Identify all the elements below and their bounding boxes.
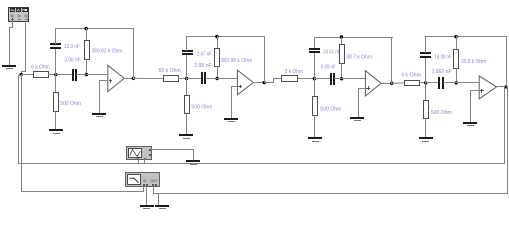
capacitor C2 12.3nF feedback (50, 43, 80, 50)
function generator XFG1 (9, 8, 29, 22)
wire C1 to op-amp U1 minus input (76, 74, 112, 76)
wire U2 plus input to ground (231, 86, 238, 118)
wire input rail to R1 (21, 74, 33, 76)
wire U3 output (381, 83, 392, 85)
wire C3 to op-amp U2 minus input (205, 78, 242, 80)
resistor R10 4k (401, 73, 421, 86)
resistor R6 500 Ohm (185, 96, 213, 114)
wire top rail to R11 (456, 36, 458, 50)
wire R11 to rail (456, 68, 458, 83)
wire R5 to rail (217, 66, 219, 79)
node top of R5 (215, 35, 218, 38)
wire X1 down to R3 (55, 74, 57, 93)
svg-text:38.7 k Ohm: 38.7 k Ohm (346, 54, 372, 60)
ground below U2 (224, 118, 238, 122)
svg-text:500 Ohm: 500 Ohm (60, 101, 81, 107)
node top of R2 (85, 27, 88, 30)
svg-text:383.98 k Ohm: 383.98 k Ohm (221, 58, 253, 64)
svg-text:IN: IN (143, 178, 146, 183)
wire R8 to rail (341, 63, 343, 79)
wire top rail to R5 (217, 36, 219, 49)
svg-text:2.862 nF: 2.862 nF (432, 69, 452, 75)
resistor R1 6k (31, 64, 50, 77)
wire C5 to op-amp U3 minus input (334, 78, 370, 80)
wire U3 output to R10 (392, 82, 404, 84)
wire C4 to top rail stage2 (186, 36, 188, 51)
wire top rail to R8 (341, 37, 343, 45)
svg-text:18.39 nF: 18.39 nF (434, 54, 451, 60)
capacitor C3 3.95nF series (194, 63, 211, 84)
resistor R7 3k (282, 69, 304, 82)
node X1 (54, 73, 57, 76)
capacitor C6 24.51nF feedback (309, 48, 340, 55)
wire U1 output (124, 78, 134, 80)
op-amp U2 (237, 70, 253, 95)
wire R2 to rail (86, 59, 88, 75)
op-amp U3 plus sign (366, 86, 370, 90)
resistor R9 500 Ohm (313, 97, 342, 116)
resistor R4 50k (159, 68, 181, 82)
resistor R2 359.82k feedback (85, 41, 123, 60)
wire C7 to op-amp U4 minus input (443, 82, 483, 84)
wire top rail to R2 (86, 28, 88, 41)
svg-text:6 k Ohm: 6 k Ohm (31, 64, 50, 70)
ground below R12 (419, 137, 433, 142)
wire R1 to node X1 (48, 74, 56, 76)
wire C2 to top rail stage1 (55, 28, 57, 44)
node R8 bottom (340, 77, 343, 80)
wire scope pin B to rail (144, 159, 146, 163)
wire X2 up to C4 (186, 55, 188, 79)
op-amp U3 (365, 71, 381, 96)
ground below U4 (463, 122, 477, 126)
node U1 output (132, 77, 135, 80)
node top of R11 (454, 35, 457, 38)
wire feedback down stage3 (391, 37, 393, 84)
wire X1 to C1 (55, 74, 72, 76)
resistor R12 500 Ohm (424, 101, 452, 119)
svg-text:500 Ohm: 500 Ohm (431, 110, 452, 116)
ground below U3 (350, 117, 364, 121)
node X3 (313, 77, 316, 80)
wire feedback down stage1 (133, 28, 135, 79)
wire bode IN- to ground (146, 186, 148, 205)
wire scope rail (18, 163, 505, 165)
wire R4 to node X2 (178, 78, 187, 80)
wire top rail stage 3 (314, 37, 393, 39)
svg-text:3.08 nF: 3.08 nF (64, 57, 80, 63)
capacitor C5 6.59nF series (321, 64, 336, 85)
wire top rail stage 4 (425, 36, 506, 38)
wire X4 down to R12 (425, 82, 427, 100)
ground for FG+ (2, 65, 16, 69)
wire FG+ to ground (9, 21, 13, 65)
wire X3 up to C6 (314, 53, 316, 79)
wire X2 to C3 (186, 78, 202, 80)
node U4 output (504, 85, 507, 88)
wire U1 plus input to ground (99, 80, 108, 113)
node R2 bottom (85, 73, 88, 76)
bode plotter XBP1 (126, 173, 160, 187)
wire FG- to input node (21, 21, 26, 75)
wire bode output rail (158, 193, 508, 195)
wire bode OUT- to ground (158, 193, 160, 205)
wire top rail stage 2 (186, 36, 265, 38)
capacitor C4 2.47nF feedback (182, 50, 212, 57)
wire X4 up to C8 (425, 57, 427, 83)
op-amp U4 (479, 76, 496, 99)
svg-text:24.51 nF: 24.51 nF (323, 49, 340, 55)
wire R10 to node X4 (419, 82, 426, 84)
wire top rail stage 1 (55, 28, 134, 30)
ground for scope trigger (186, 160, 200, 165)
svg-text:2.47 nF: 2.47 nF (197, 51, 212, 57)
wire feedback down stage2 (264, 36, 266, 83)
node U2 output (263, 81, 266, 84)
node R11 bottom (455, 81, 458, 84)
wire bode IN+ to input rail (143, 186, 145, 192)
node U3 output (390, 82, 393, 85)
capacitor C7 2.862nF series (432, 69, 452, 89)
wire scope pin A to rail (138, 159, 140, 163)
svg-text:4 k Ohm: 4 k Ohm (401, 73, 421, 79)
wire U4 plus input to ground (470, 90, 480, 122)
wire bode OUT+ jog (153, 186, 159, 194)
wire X1 up to C2 (55, 48, 57, 75)
wire R12 to ground (425, 118, 427, 138)
wire C8 to top rail stage4 (425, 36, 427, 53)
wire bode input rail (21, 191, 144, 193)
wire X3 to C5 (314, 78, 331, 80)
wire U4 output (496, 86, 508, 88)
svg-text:500 Ohm: 500 Ohm (191, 104, 212, 110)
op-amp U1 (108, 65, 125, 91)
ground below R6 (179, 134, 193, 139)
svg-text:OUT: OUT (150, 178, 158, 183)
ground below R9 (308, 137, 322, 142)
node R5 bottom (215, 77, 218, 80)
wire R9 to ground (314, 115, 316, 138)
wire input node down to scope rail (18, 75, 22, 163)
resistor R3 500 Ohm (54, 93, 82, 112)
op-amp U2 plus sign (238, 85, 242, 88)
op-amp U4 plus sign (480, 89, 484, 93)
wire feedback down stage4 (506, 36, 508, 87)
wire U2 output jog to R7 (264, 78, 282, 83)
ground for bode IN- (140, 205, 154, 209)
wire input node down to bode rail (21, 74, 23, 192)
wire X2 down to R6 (186, 78, 188, 96)
resistor R11 69.8k feedback (454, 50, 487, 69)
node top of R8 (340, 35, 343, 38)
svg-text:69.8 k Ohm: 69.8 k Ohm (461, 59, 486, 65)
wire output down to bode rail (507, 86, 509, 194)
svg-text:3 k Ohm: 3 k Ohm (285, 69, 304, 75)
wire scope trigger to ground (151, 149, 194, 161)
svg-text:3.95 nF: 3.95 nF (194, 63, 211, 69)
wire U2 output (253, 82, 265, 84)
node X2 (185, 77, 188, 80)
op-amp U1 plus sign (109, 79, 112, 83)
wire output down to scope rail (504, 86, 506, 163)
resistor R5 383.98k feedback (215, 49, 253, 67)
wire X3 down to R9 (314, 78, 316, 97)
wire R6 to ground (186, 113, 188, 135)
ground below R3 (49, 129, 63, 134)
wire R7 to node X3 (297, 78, 315, 80)
wire R3 to ground (55, 111, 57, 130)
svg-text:12.3 nF: 12.3 nF (64, 44, 80, 50)
node X4 (424, 81, 427, 84)
node IN junction (20, 73, 23, 76)
svg-text:6.59 nF: 6.59 nF (321, 64, 336, 70)
oscilloscope XSC1 (127, 147, 152, 161)
capacitor C8 18.39nF feedback (420, 52, 452, 60)
wire X4 to C7 (425, 82, 439, 84)
ground below U1 (92, 113, 106, 117)
wire C6 to top rail stage3 (314, 37, 316, 48)
wire U1 output to R4 (133, 77, 163, 79)
svg-text:359.82 k Ohm: 359.82 k Ohm (92, 48, 123, 54)
svg-text:50 k Ohm: 50 k Ohm (159, 68, 181, 74)
wire U3 plus input to ground (358, 88, 366, 117)
resistor R8 38.7k feedback (340, 45, 373, 64)
ground for bode OUT- (155, 205, 169, 209)
capacitor C1 3.08nF series (64, 57, 80, 81)
svg-text:500 Ohm: 500 Ohm (320, 106, 341, 112)
